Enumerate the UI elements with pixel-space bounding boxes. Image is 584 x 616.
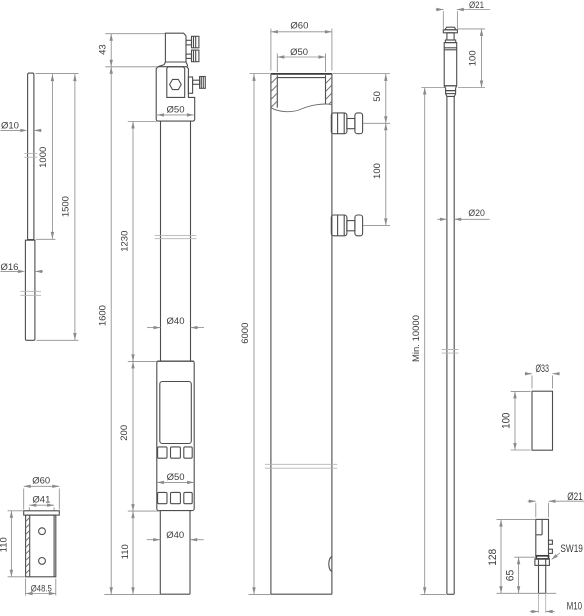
head bolt 2 stem <box>186 54 192 58</box>
dimension Min. 10000 <box>424 88 426 595</box>
sleeve Ø33 ext lines <box>531 376 533 389</box>
head throat <box>165 61 186 63</box>
adapter M10 ext lines <box>538 593 540 612</box>
clamp bolt 1 <box>331 113 347 134</box>
dimension 110 flange <box>10 511 12 577</box>
svg-text:Ø50: Ø50 <box>167 472 185 483</box>
tube wall hatch right <box>326 77 332 83</box>
dimension 128 <box>500 520 502 594</box>
rod upper break lines <box>24 152 37 154</box>
head bolt 2 knob <box>192 50 199 62</box>
svg-text:Ø50: Ø50 <box>290 47 308 58</box>
tube outer walls <box>270 74 272 594</box>
head block <box>165 33 186 62</box>
dimension 43 <box>110 34 112 67</box>
tube inner bore lines <box>276 75 278 107</box>
head bolt 1 stem <box>186 40 192 45</box>
dimension 50 <box>385 74 387 123</box>
flange hole 2 <box>39 558 46 565</box>
adapter body <box>536 519 549 555</box>
rod upper cylinder <box>444 43 457 86</box>
svg-text:Ø40: Ø40 <box>166 530 184 541</box>
rod shaft <box>446 96 448 594</box>
tube wall hatch left <box>271 77 277 83</box>
head clamp window <box>167 67 185 98</box>
tube Ø60 ext lines <box>270 29 272 71</box>
rod taper <box>444 85 457 87</box>
svg-text:Ø16: Ø16 <box>1 262 19 273</box>
dimension 65 <box>518 557 520 593</box>
label Ø10 leader <box>1 129 22 131</box>
svg-text:128: 128 <box>487 549 499 566</box>
svg-text:65: 65 <box>504 570 516 582</box>
tube break wave <box>271 104 332 112</box>
mast lower tube <box>159 511 161 595</box>
dimension 110 mast <box>132 511 134 594</box>
head hex bolt head <box>170 79 182 89</box>
adapter bore lines <box>541 519 543 534</box>
flange hatch <box>26 518 30 522</box>
rod tip disc <box>443 30 457 33</box>
svg-text:100: 100 <box>501 413 513 429</box>
flange top plate <box>24 511 60 515</box>
dimension 1230 <box>132 122 134 362</box>
mast tube junction lines <box>155 235 197 237</box>
mast tube-top extension line <box>128 121 157 123</box>
adapter 128 ext line top <box>497 519 536 521</box>
svg-text:Ø20: Ø20 <box>468 208 485 219</box>
flange Ø60 ext lines <box>23 489 25 510</box>
flange hole 1 <box>39 528 46 535</box>
head side bolt knob <box>200 77 206 89</box>
sleeve body <box>532 391 553 450</box>
flange Ø48.5 ext lines <box>25 579 27 596</box>
svg-text:Ø10: Ø10 <box>1 121 19 132</box>
svg-text:Ø40: Ø40 <box>167 316 185 327</box>
flange Ø41 ext lines <box>28 507 30 510</box>
rod tip collar <box>445 40 455 43</box>
dimension 100 clamp <box>385 123 387 225</box>
head side bolt block <box>188 77 192 93</box>
flange bore lines <box>29 515 31 577</box>
head side bolt stem <box>193 80 200 84</box>
adapter hex nut <box>535 559 550 566</box>
mast bottom extension line <box>104 594 160 596</box>
flange body <box>26 515 56 577</box>
rod min length top extension <box>421 87 444 89</box>
tube drainage hole <box>329 557 332 571</box>
svg-text:43: 43 <box>97 44 108 55</box>
rod Ø21 ext lines <box>442 11 444 29</box>
adapter threaded stud <box>539 565 546 593</box>
mast box-bottom extension line <box>128 510 160 512</box>
coupler box top edge <box>157 360 194 362</box>
dimension 100 rod tip <box>481 29 483 88</box>
coupler box <box>157 361 194 511</box>
adapter Ø21 ext lines <box>535 503 537 517</box>
adapter washer <box>536 556 548 559</box>
dimension 100 sleeve <box>514 391 516 450</box>
head Ø50 dim line <box>157 114 194 116</box>
svg-text:SW19: SW19 <box>560 543 583 555</box>
clamp bolt 2 <box>331 215 347 236</box>
adapter ext line bottom <box>497 592 557 594</box>
tube top-right extension line <box>332 73 390 75</box>
coupler Ø50 dim line <box>157 481 194 483</box>
svg-text:1600: 1600 <box>98 305 109 326</box>
clamp 2 extension line <box>363 224 390 226</box>
mast shoulder extension line <box>105 66 157 68</box>
svg-text:Ø60: Ø60 <box>290 21 308 32</box>
svg-text:110: 110 <box>0 537 9 552</box>
clamp 1 extension line <box>363 122 390 124</box>
svg-text:Ø48.5: Ø48.5 <box>31 583 52 594</box>
dimension 1600 <box>110 67 112 594</box>
svg-text:Ø33: Ø33 <box>535 363 549 375</box>
tube junction lines <box>265 463 337 465</box>
head bolt 1 knob <box>192 36 199 48</box>
svg-text:6000: 6000 <box>240 323 251 344</box>
rod upper section Ø10 <box>28 73 34 240</box>
coupler window <box>160 382 192 444</box>
svg-text:1230: 1230 <box>119 231 130 252</box>
dimension 200 <box>132 361 134 511</box>
svg-text:M10: M10 <box>567 601 583 613</box>
rod bottom extension line <box>37 339 79 341</box>
mast upper tube <box>160 121 162 361</box>
label Ø16 leader <box>1 270 20 272</box>
tube Ø50 ext lines <box>276 53 278 72</box>
rod 100 ext lines <box>458 28 486 30</box>
svg-text:200: 200 <box>119 425 130 441</box>
mast top extension line <box>105 33 165 35</box>
svg-text:50: 50 <box>372 91 383 102</box>
svg-text:1000: 1000 <box>38 147 49 168</box>
tube top edge <box>271 73 332 75</box>
adapter 65 ext line <box>514 556 536 558</box>
coupler squares row1 <box>158 447 167 458</box>
svg-text:110: 110 <box>120 544 131 559</box>
head clamp body <box>156 67 195 115</box>
tube bottom extension line <box>249 594 271 596</box>
adapter tabs <box>549 540 553 544</box>
dimension 1000 <box>51 74 53 239</box>
rod min length bottom extension <box>421 594 447 596</box>
svg-text:Min. 10000: Min. 10000 <box>411 315 422 362</box>
mast box-top extension line <box>128 360 157 362</box>
rod lower break lines <box>20 290 41 292</box>
dimension 1500 <box>74 74 76 340</box>
tube bottom edge <box>271 593 332 595</box>
head flange <box>156 115 195 121</box>
tube top-left extension line <box>250 73 271 75</box>
svg-text:1500: 1500 <box>61 196 72 217</box>
rod tip neck <box>447 33 454 40</box>
rod lower section Ø16 <box>25 240 35 340</box>
svg-text:100: 100 <box>372 163 383 179</box>
rod top extension line <box>36 73 79 75</box>
rod tip cap <box>445 27 456 30</box>
flange 110 ext lines <box>8 510 23 512</box>
rod junction lines <box>442 349 459 351</box>
svg-text:100: 100 <box>468 50 479 66</box>
dimension 6000 <box>253 74 255 594</box>
coupler squares row2 <box>158 492 167 503</box>
svg-text:Ø60: Ø60 <box>32 476 50 487</box>
svg-text:Ø50: Ø50 <box>167 105 185 116</box>
sleeve 100 ext lines <box>511 390 531 392</box>
rod joint extension line <box>36 238 56 240</box>
